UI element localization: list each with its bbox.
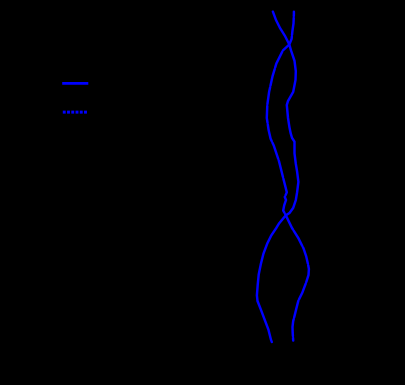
solid curve — [257, 12, 299, 342]
legend dashed line sample — [63, 111, 88, 114]
legend solid line sample — [62, 82, 88, 85]
dashed curve — [267, 12, 309, 341]
